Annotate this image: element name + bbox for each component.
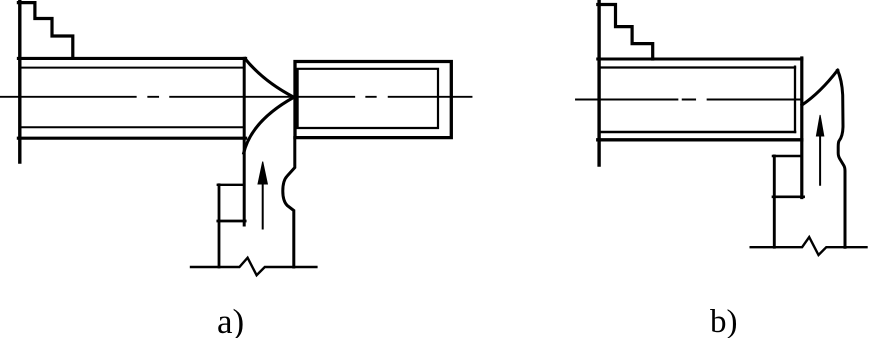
workpiece inner top line (fig b) (600, 66, 795, 68)
cone upper curve (fig a) (245, 59, 294, 98)
tool shank step left vertical (fig b) (773, 156, 776, 247)
cut-off piece outer rectangle (fig a) (295, 62, 451, 138)
chuck jaw stepped outline (fig b) (598, 5, 653, 60)
tool cutting edge slant (fig b) (802, 70, 838, 105)
feed arrow head (fig b) (816, 115, 823, 136)
workpiece inner right edge (fig b) (794, 67, 796, 132)
feed arrow shaft (fig b) (819, 120, 821, 185)
feed arrow shaft (fig a) (262, 168, 264, 229)
cut-off piece inner rectangle (fig a) (298, 69, 438, 128)
tool post break line with zigzag (fig a) (191, 258, 316, 276)
tool shank step left vertical (fig a) (218, 185, 221, 267)
chuck jaw stepped outline (fig a) (18, 3, 72, 59)
tool shank step top (fig a) (218, 184, 244, 186)
tool shank step top (fig b) (773, 155, 800, 158)
centerline (fig a) (0, 96, 472, 98)
parting tool right edge with wavy break (fig a) (283, 138, 295, 267)
sub-figure label a) (217, 304, 244, 338)
tool post break line with zigzag (fig b) (751, 237, 867, 255)
cut face / blade left edge vertical (fig a) (243, 58, 246, 225)
workpiece right face / tool front edge vertical (fig b) (800, 58, 803, 198)
chuck jaw face line (fig b) (597, 0, 600, 165)
chuck jaw face line (fig a) (18, 0, 21, 162)
workpiece inner bottom line (fig a) (21, 126, 244, 128)
cone lower curve (fig a) (244, 97, 294, 153)
centerline (fig b) (576, 99, 801, 101)
workpiece outer top line (fig b) (598, 57, 802, 60)
workpiece inner top line (fig a) (21, 67, 244, 69)
sub-figure label b) (710, 306, 738, 338)
feed arrow head (fig a) (258, 162, 267, 184)
workpiece outer bottom line (fig b) (598, 138, 802, 141)
workpiece inner bottom line (fig b) (600, 131, 795, 134)
tool blade bottom / step bottom line (fig a) (218, 220, 245, 223)
tool blade bottom / step bottom line (fig b) (773, 195, 804, 198)
workpiece outer bottom line (fig a) (18, 137, 245, 140)
tool right edge with wavy break (fig b) (838, 70, 845, 247)
workpiece outer top line (fig a) (18, 57, 245, 60)
